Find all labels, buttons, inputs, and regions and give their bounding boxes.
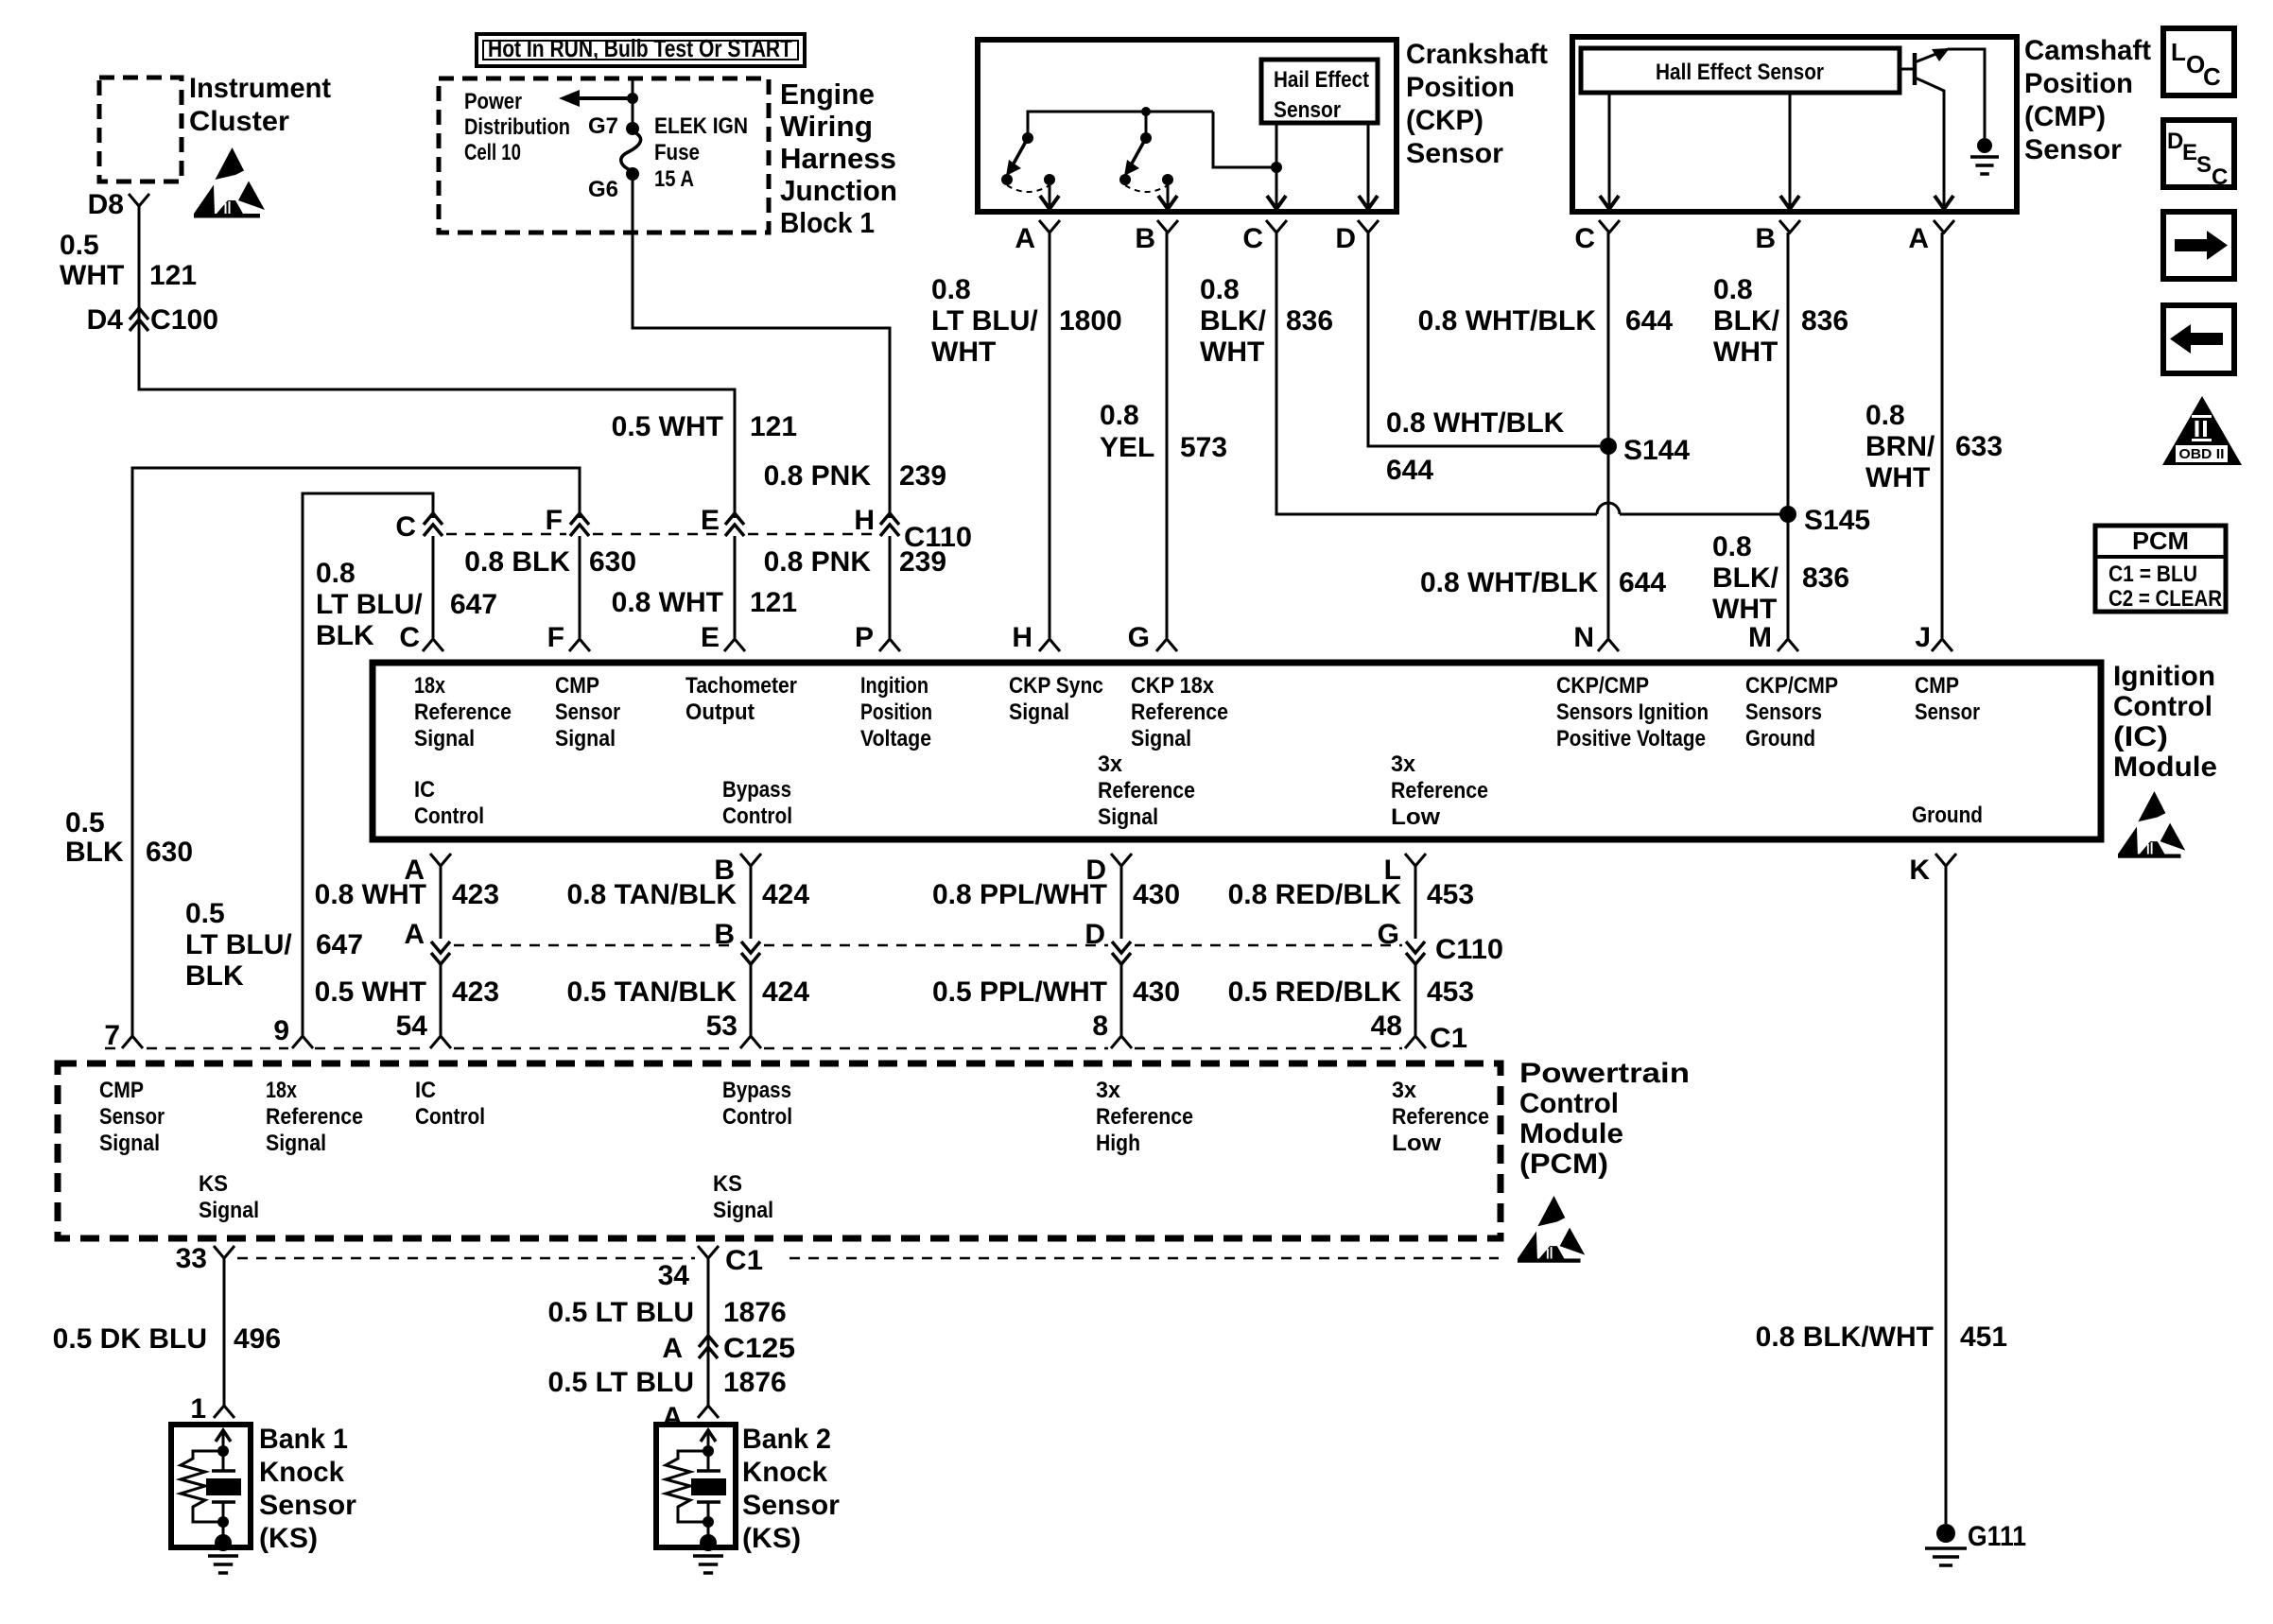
IC module pin M connector [1778,639,1798,651]
wire 0.8 WHT/BLK 644 (CKP D to splice S144) [1368,233,1600,446]
svg-text:0.5 WHT: 0.5 WHT [612,411,723,442]
svg-text:Harness: Harness [780,142,896,175]
transistor Q1 base bar [1913,53,1917,85]
wire to CKP pin D [1367,123,1370,209]
wire 0.8 PPL/WHT 430 (IC D to PCM 8) [1120,866,1123,939]
IC module pin F connector [569,639,590,651]
svg-text:Control: Control [1519,1088,1619,1119]
svg-text:Sensor: Sensor [742,1490,840,1521]
svg-text:Reference: Reference [1131,700,1228,725]
svg-text:7: 7 [104,1020,120,1051]
svg-text:Reference: Reference [266,1104,363,1130]
wire from C110 E to IC pin E [734,536,737,638]
inline connector C125 (double chevron) [699,1336,718,1347]
CMP pin C connector [1599,220,1620,233]
wire to CKP pin C [1275,167,1278,209]
wire 0.8 BLK 630 (C110 F branch to PCM 7) [132,468,580,1036]
svg-text:0.8 WHT/BLK: 0.8 WHT/BLK [1420,567,1599,598]
splice S144 [1600,438,1617,455]
svg-text:K: K [1909,855,1930,886]
switch 1 contact nodes [1001,174,1013,185]
svg-text:WHT: WHT [1712,594,1777,625]
svg-text:Signal: Signal [1009,700,1069,725]
CKP pin D connector [1358,220,1379,233]
CMP pin B connector [1779,220,1800,233]
svg-text:LT BLU/: LT BLU/ [931,305,1038,337]
svg-text:3x: 3x [1392,1078,1417,1103]
svg-text:ELEK IGN: ELEK IGN [654,113,748,139]
svg-text:644: 644 [1619,567,1666,598]
hall output wire to CMP pin C [1608,93,1611,209]
svg-text:239: 239 [899,460,946,492]
svg-text:Crankshaft: Crankshaft [1406,39,1548,70]
svg-text:L: L [2171,38,2186,66]
C110 pin C connector pair [424,513,442,525]
KS1 bottom junction node [217,1516,229,1528]
svg-text:0.5 PPL/WHT: 0.5 PPL/WHT [932,976,1107,1008]
svg-text:15 A: 15 A [654,166,694,192]
wire 0.8 LT BLU/BLK 647 (C110 C branch to PCM 9) [303,493,433,1036]
hall output junction node [1271,162,1282,173]
svg-text:Powertrain: Powertrain [1519,1058,1690,1089]
switch 2 travel arc (dashed) [1125,185,1168,192]
svg-text:0.8: 0.8 [1100,400,1139,431]
svg-text:Reference: Reference [1098,778,1195,803]
svg-text:YEL: YEL [1100,432,1154,463]
PCM pin 7 connector [122,1036,143,1048]
svg-text:Bypass: Bypass [722,1078,791,1103]
svg-text:Cluster: Cluster [189,106,289,137]
wire 0.8 BLK/WHT 451 (IC K to ground G111) [1945,866,1948,1524]
svg-text:S144: S144 [1623,435,1690,466]
svg-text:Sensors: Sensors [1745,700,1822,725]
svg-text:1800: 1800 [1059,305,1122,337]
svg-text:C: C [2212,164,2228,190]
svg-text:(CKP): (CKP) [1406,105,1484,136]
svg-text:Reference: Reference [1391,778,1488,803]
ignition control (IC) module box [373,663,2101,839]
bank 2 knock sensor (KS) box [656,1425,736,1547]
svg-text:Distribution: Distribution [464,114,570,140]
KS2 internal input arrow [701,1430,716,1442]
ESD sensitivity symbol (instrument cluster) [194,147,265,218]
svg-text:0.5: 0.5 [60,230,99,261]
svg-text:Power: Power [464,89,522,114]
svg-text:9: 9 [273,1015,289,1046]
svg-text:Module: Module [1519,1118,1623,1149]
svg-text:836: 836 [1286,305,1333,337]
svg-text:CKP Sync: CKP Sync [1009,673,1103,699]
ground node inside CMP [1977,138,1992,153]
svg-text:0.8 PPL/WHT: 0.8 PPL/WHT [932,879,1107,910]
svg-text:CKP/CMP: CKP/CMP [1745,673,1838,699]
svg-text:Sensor: Sensor [259,1490,356,1521]
CMP pin A connector [1934,220,1954,233]
power distribution cell box (dashed) [439,78,769,233]
svg-text:J: J [1915,622,1931,653]
svg-text:Block 1: Block 1 [780,206,875,239]
wire to CKP pin A [1049,180,1051,209]
svg-text:Control: Control [415,1104,485,1130]
hall effect sensor sub-box (CMP) [1581,48,1900,93]
KS1 resistor R [181,1451,223,1522]
svg-text:18x: 18x [266,1078,298,1103]
bus drop to switch 2 [1145,112,1148,133]
branch arrow to other circuits [577,96,633,100]
wire 0.8 LT BLU/WHT 1800 (CKP A to IC H) [1049,233,1051,638]
svg-text:Position: Position [1406,72,1515,103]
svg-text:121: 121 [750,411,797,442]
svg-text:0.8 WHT: 0.8 WHT [315,879,426,910]
svg-text:Low: Low [1392,1131,1441,1156]
wire 0.8 RED/BLK 453 (IC L to PCM 48) [1414,866,1417,939]
svg-text:630: 630 [146,837,193,868]
svg-text:Instrument: Instrument [189,73,331,104]
IC module pin E connector [724,639,745,651]
svg-text:IC: IC [415,1078,436,1103]
svg-text:C2 = CLEAR: C2 = CLEAR [2108,586,2222,612]
svg-text:121: 121 [750,587,797,618]
connector C110 dashed line (lower) [454,944,737,947]
inline connector C100 (double chevron) [130,308,148,320]
svg-text:BLK/: BLK/ [1712,562,1779,594]
svg-text:239: 239 [899,546,946,578]
connector C110 dashed line (top) [446,533,566,536]
switch 2 pivot node [1140,132,1152,144]
svg-text:Ground: Ground [1912,803,1983,828]
svg-text:F: F [546,505,563,536]
PCM pin 9 connector [292,1036,313,1048]
hall output wire to CMP pin B [1789,93,1792,209]
ESD sensitivity symbol (IC module) [2118,791,2185,858]
svg-text:Control: Control [2113,691,2212,722]
svg-text:G: G [1128,622,1150,653]
svg-text:1876: 1876 [723,1367,787,1398]
OBD II symbol triangle [2162,396,2242,465]
svg-text:(CMP): (CMP) [2024,101,2106,132]
KS1 case ground node [222,1522,225,1537]
svg-text:KS: KS [713,1171,742,1197]
svg-text:0.8 WHT/BLK: 0.8 WHT/BLK [1386,407,1565,439]
svg-text:0.8 BLK/WHT: 0.8 BLK/WHT [1756,1322,1934,1353]
KS1 top junction node [217,1445,229,1457]
KS2 resistor R [666,1451,708,1522]
svg-text:33: 33 [176,1243,207,1274]
ground symbol (CMP internal) [1970,155,1999,159]
svg-text:WHT: WHT [60,260,124,291]
transistor Q1 collector lead [1915,49,1948,62]
svg-text:D8: D8 [88,189,124,220]
bank 2 KS pin A connector [698,1406,719,1418]
camshaft position (CMP) sensor box [1572,37,2017,212]
svg-text:836: 836 [1801,305,1848,337]
svg-text:BRN/: BRN/ [1865,431,1935,462]
CKP pin C connector [1266,220,1287,233]
svg-text:WHT: WHT [931,337,996,368]
svg-text:573: 573 [1180,432,1227,463]
svg-text:0.5 RED/BLK: 0.5 RED/BLK [1228,976,1402,1008]
svg-text:Hot In RUN, Bulb Test Or START: Hot In RUN, Bulb Test Or START [488,34,792,62]
svg-text:A: A [662,1333,683,1364]
PCM pin 34 connector [698,1246,719,1258]
svg-text:Camshaft: Camshaft [2024,35,2151,66]
svg-text:Knock: Knock [742,1457,827,1488]
svg-text:423: 423 [452,879,499,910]
svg-text:3x: 3x [1391,752,1416,777]
svg-text:0.5 DK BLU: 0.5 DK BLU [53,1323,207,1355]
svg-text:Control: Control [722,1104,792,1130]
svg-text:C100: C100 [150,304,218,336]
wire 0.8 WHT/BLK 644 (CMP C to IC N) [1607,233,1610,638]
svg-text:Bypass: Bypass [722,777,791,803]
svg-text:M: M [1748,622,1772,653]
splice S145 [1779,506,1796,523]
svg-text:LT BLU/: LT BLU/ [316,589,423,620]
svg-text:Sensor: Sensor [1274,97,1341,123]
svg-text:0.8: 0.8 [1712,531,1752,562]
svg-text:0.5: 0.5 [65,807,105,838]
connector pin D8 (female) [129,194,149,206]
svg-text:633: 633 [1955,431,2003,462]
svg-text:48: 48 [1371,1011,1402,1042]
power feed box: Hot In RUN, Bulb Test Or START [477,34,805,66]
wire from C110 C to IC pin C [432,536,435,638]
svg-text:CMP: CMP [1915,673,1959,699]
svg-text:Sensors Ignition: Sensors Ignition [1556,700,1709,725]
svg-text:Control: Control [722,803,792,829]
svg-text:Signal: Signal [266,1131,326,1156]
svg-text:OBD II: OBD II [2179,446,2225,462]
svg-text:Position: Position [860,700,932,725]
svg-text:Ground: Ground [1745,726,1815,752]
svg-text:0.5 TAN/BLK: 0.5 TAN/BLK [567,976,737,1008]
wire from C110 H to IC pin P [889,536,892,638]
hall sensor output wire (CKP) [1275,123,1278,167]
forward arrow glyph [2175,231,2228,260]
svg-text:(KS): (KS) [742,1523,801,1554]
wire 0.8 PNK 239 from fuse G6 to C110 pin H [633,174,890,518]
svg-text:647: 647 [450,589,497,620]
IC module bottom pin A connector [430,854,451,866]
svg-text:C: C [395,511,416,543]
switch 2 contact nodes [1119,174,1131,185]
svg-text:D: D [1335,223,1356,254]
junction node at fuse feed [627,93,638,104]
svg-text:8: 8 [1092,1011,1108,1042]
svg-text:0.8: 0.8 [1200,274,1240,305]
C110 pin E connector pair [725,513,744,525]
switch 1 arm with arrow [1014,138,1028,164]
bank 1 knock sensor (KS) box [171,1425,251,1547]
switch 1 travel arc (dashed) [1007,185,1050,192]
svg-text:H: H [854,505,875,536]
svg-text:WHT: WHT [1200,337,1264,368]
svg-text:Signal: Signal [414,726,475,752]
svg-text:D: D [2167,129,2183,154]
C110 pin F connector pair [570,513,589,525]
wire 0.8 WHT 423 (IC A to PCM 54) [440,866,442,939]
svg-text:Cell 10: Cell 10 [464,140,521,165]
CKP pin B connector [1157,220,1178,233]
svg-text:430: 430 [1133,976,1180,1008]
svg-text:453: 453 [1427,976,1474,1008]
IC module bottom pin B connector [740,854,761,866]
svg-text:S: S [2196,152,2212,178]
KS1 internal input arrow [216,1430,231,1442]
svg-text:Sensor: Sensor [555,700,620,725]
svg-text:Sensor: Sensor [1915,700,1980,725]
connector C1 dashed line (bottom pins 33/34) [237,1257,695,1260]
svg-text:Signal: Signal [713,1198,773,1223]
svg-text:C110: C110 [1435,934,1503,965]
svg-text:C1 = BLU: C1 = BLU [2108,561,2197,587]
wire 0.8 BLK/WHT 836 (CMP B to IC M) [1787,233,1790,638]
svg-text:Module: Module [2113,752,2217,783]
svg-text:430: 430 [1133,879,1180,910]
svg-text:(IC): (IC) [2113,721,2168,752]
svg-text:496: 496 [234,1323,281,1355]
svg-text:Tachometer: Tachometer [685,673,797,699]
svg-text:E: E [701,622,720,653]
svg-text:B: B [1135,223,1155,254]
svg-text:Signal: Signal [555,726,616,752]
wire 0.5 WHT 121 from instrument cluster D8 to C110 pin E [139,206,735,518]
svg-text:(KS): (KS) [259,1523,318,1554]
svg-text:Low: Low [1391,804,1440,830]
svg-text:0.5: 0.5 [185,898,225,929]
svg-text:53: 53 [706,1011,737,1042]
svg-text:Output: Output [685,700,755,725]
svg-text:0.5 WHT: 0.5 WHT [315,976,426,1008]
svg-text:644: 644 [1386,455,1433,486]
svg-text:CMP: CMP [555,673,599,699]
svg-text:WHT: WHT [1865,462,1930,493]
ground symbol G111 [1925,1546,1967,1550]
bus elbow to hall output [1213,112,1276,167]
svg-text:D4: D4 [87,304,124,336]
svg-text:Sensor: Sensor [2024,134,2122,165]
svg-text:1876: 1876 [723,1297,787,1328]
IC module pin J connector [1932,639,1952,651]
svg-text:121: 121 [149,260,197,291]
svg-text:BLK/: BLK/ [1200,305,1267,337]
svg-text:Reference: Reference [1096,1104,1193,1130]
IC module bottom pin L connector [1405,854,1426,866]
svg-text:A: A [404,919,425,950]
svg-text:0.8 WHT/BLK: 0.8 WHT/BLK [1418,305,1597,337]
svg-text:453: 453 [1427,879,1474,910]
svg-text:BLK/: BLK/ [1713,305,1780,337]
terminal G7 node [626,122,639,135]
KS1 piezo capacitor C [212,1469,235,1473]
svg-text:34: 34 [658,1260,690,1291]
bank 1 KS pin 1 connector [214,1406,234,1418]
back navigation arrow box [2163,305,2234,373]
svg-text:Signal: Signal [99,1131,160,1156]
svg-text:IC: IC [414,777,435,803]
wire from C110 F to IC pin F [579,536,581,638]
svg-text:3x: 3x [1098,752,1123,777]
svg-text:Ignition: Ignition [2113,661,2215,692]
svg-text:PCM: PCM [2132,527,2189,555]
svg-text:Bank 1: Bank 1 [259,1424,348,1455]
wire 0.5 DK BLU 496 (PCM 33 to bank 1 KS) [223,1258,226,1406]
IC module pin C connector [423,639,443,651]
svg-text:BLK: BLK [65,837,124,868]
internal bus wire (CKP reluctor) [1028,112,1213,133]
IC module bottom pin K connector [1935,854,1956,866]
svg-text:CKP 18x: CKP 18x [1131,673,1215,699]
svg-text:N: N [1573,622,1594,653]
svg-text:424: 424 [762,976,809,1008]
svg-text:Sensor: Sensor [1406,138,1503,169]
svg-text:18x: 18x [414,673,446,699]
svg-text:Positive Voltage: Positive Voltage [1556,726,1706,752]
KS2 piezo capacitor C [697,1469,720,1473]
transistor Q1 emitter lead [1915,78,1944,209]
svg-text:High: High [1096,1131,1140,1156]
ground symbol (KS1) [208,1554,238,1558]
svg-text:0.8 BLK: 0.8 BLK [464,546,570,578]
svg-text:Engine: Engine [780,78,875,111]
svg-text:B: B [1755,223,1776,254]
connector C1 dashed line (PCM top) [105,1047,120,1050]
svg-text:BLK: BLK [185,960,244,992]
svg-text:0.8 TAN/BLK: 0.8 TAN/BLK [567,879,737,910]
svg-text:C1: C1 [725,1245,763,1276]
svg-text:A: A [662,1402,683,1433]
C110 pin H connector pair [880,513,899,525]
wire 0.8 BRN/WHT 633 (CMP A to IC J) [1941,233,1944,638]
bus junction node [1141,107,1151,116]
svg-text:424: 424 [762,879,809,910]
svg-text:BLK: BLK [316,620,374,651]
svg-text:G111: G111 [1968,1521,2026,1552]
switch 1 pivot node [1022,132,1033,144]
svg-text:WHT: WHT [1713,337,1778,368]
crankshaft position (CKP) sensor box [978,40,1397,212]
svg-text:1: 1 [190,1393,206,1425]
hall effect sensor sub-box (CKP) [1261,60,1378,123]
svg-text:C125: C125 [723,1333,795,1364]
KS2 top junction node [703,1445,714,1457]
svg-text:H: H [1012,622,1032,653]
svg-text:C: C [2203,62,2221,91]
powertrain control module (PCM) box (dashed) [58,1063,1501,1238]
CKP pin A connector [1039,220,1060,233]
ground G111 node [1936,1524,1955,1543]
svg-text:Voltage: Voltage [860,726,931,752]
svg-text:0.8 WHT: 0.8 WHT [612,587,723,618]
forward navigation arrow box [2163,212,2234,279]
svg-text:LT BLU/: LT BLU/ [185,929,292,960]
switch 2 arm with arrow [1132,138,1146,164]
LOC legend box [2163,28,2234,95]
svg-text:F: F [547,622,564,653]
svg-text:C: C [1574,223,1595,254]
IC module pin H connector [1039,639,1060,651]
KS2 bottom junction node [703,1516,714,1528]
svg-text:P: P [855,622,874,653]
fuse F: ELEK IGN Fuse 15 A (element squiggle) [621,131,641,171]
svg-text:Fuse: Fuse [654,140,700,165]
ESD sensitivity symbol (PCM) [1518,1196,1585,1263]
IC module pin P connector [879,639,900,651]
svg-text:423: 423 [452,976,499,1008]
PCM pin 33 connector [214,1246,234,1258]
terminal G6 node [626,167,639,181]
svg-text:Hail Effect: Hail Effect [1274,67,1369,93]
